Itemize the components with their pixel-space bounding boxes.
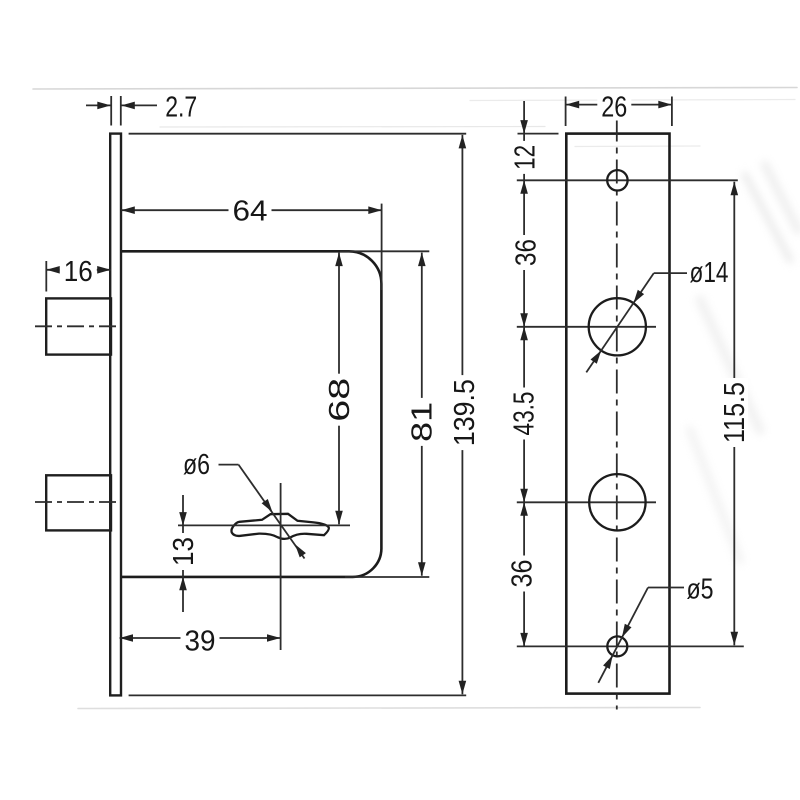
dimension text 43.5 <box>511 388 538 440</box>
dimension 16 line and arrows <box>46 269 110 271</box>
faceplate edge (thin vertical plate, side view) <box>110 134 121 696</box>
svg-text:26: 26 <box>601 92 627 124</box>
upper large hole diameter 14 <box>589 298 646 355</box>
spindle follower / Oe6 cam shape <box>231 514 328 539</box>
dimension text 139.5 <box>451 375 478 450</box>
svg-text:ø5: ø5 <box>687 574 714 606</box>
dimension text 26 <box>597 92 631 121</box>
leader line for diameter 6 <box>219 464 239 466</box>
leader line for diameter 5 <box>648 587 684 589</box>
svg-text:139.5: 139.5 <box>449 379 481 446</box>
centerline horizontal through follower <box>178 524 350 526</box>
faceplate front view rectangle <box>566 134 669 694</box>
dimension text 13 <box>170 533 197 570</box>
dimension 64 extension line right <box>381 204 383 290</box>
dimension 13 line and arrows <box>182 495 184 612</box>
extension of faceplate top edge left <box>518 133 559 135</box>
dimension text 36 upper <box>513 235 540 270</box>
svg-text:64: 64 <box>233 196 268 228</box>
extension of body bottom edge <box>345 576 429 578</box>
dimension 2.7 line and arrows <box>86 104 111 106</box>
hole center extension line (Oe14) <box>517 326 656 328</box>
dimension text 16 <box>60 256 97 285</box>
top screw hole <box>607 170 627 190</box>
dimension text 36 lower <box>509 556 536 592</box>
chain dimension line 12/36/43.5/36 <box>523 101 525 646</box>
lower large hole <box>589 474 645 530</box>
svg-text:16: 16 <box>64 256 93 288</box>
centerline deadbolt <box>35 501 119 503</box>
vertical centerline of faceplate <box>616 118 618 710</box>
dimension text 39 <box>181 626 220 655</box>
dimension text 64 <box>229 196 272 225</box>
dimension 81 line and arrows <box>421 253 423 576</box>
dimension 26 line and arrows <box>566 104 672 106</box>
svg-text:ø6: ø6 <box>183 449 210 481</box>
deadbolt (bottom bolt, side view) <box>46 475 111 530</box>
dimension text 68 <box>326 374 353 426</box>
hole center extension line top (Oe5) <box>517 179 738 181</box>
dimension 39 line and arrows <box>120 637 281 639</box>
dimension 115.5 line and arrows <box>733 182 735 646</box>
centerline vertical through follower <box>280 483 282 650</box>
dimension text 81 <box>408 398 435 446</box>
svg-text:12: 12 <box>509 145 541 170</box>
extension line bottom (faceplate bottom) <box>129 694 467 696</box>
dimension 2.7 extension lines <box>110 96 112 126</box>
svg-text:115.5: 115.5 <box>719 382 751 443</box>
svg-text:81: 81 <box>406 402 438 442</box>
dimension 16 extension line <box>45 261 47 292</box>
svg-text:39: 39 <box>185 626 216 658</box>
dimension 26 extension lines <box>565 97 567 127</box>
dimension 139.5 line and arrows <box>461 135 463 694</box>
latch bolt (top bolt, side view) <box>46 298 111 354</box>
svg-text:68: 68 <box>324 378 356 422</box>
dimension text 115.5 <box>721 378 748 447</box>
dimension text 12 <box>511 141 538 174</box>
extension of body top edge <box>340 250 429 252</box>
dimension text 2.7 <box>161 92 201 121</box>
svg-text:36: 36 <box>511 239 543 266</box>
dimension 68 line and arrows <box>338 253 340 525</box>
lock body outline (side view) <box>121 251 381 577</box>
svg-text:2.7: 2.7 <box>165 92 197 124</box>
svg-text:36: 36 <box>507 560 539 588</box>
svg-text:43.5: 43.5 <box>509 392 541 436</box>
hole center extension line bottom (Oe5) <box>517 645 744 647</box>
leader line for diameter 14 <box>654 272 687 274</box>
svg-text:ø14: ø14 <box>690 257 729 289</box>
dimension 64 line and arrows <box>121 209 382 211</box>
scan artifact lines <box>33 88 798 709</box>
svg-text:13: 13 <box>168 537 200 566</box>
extension line top (faceplate top) <box>129 133 467 135</box>
hole center extension line (lower big hole) <box>517 501 656 503</box>
centerline latch bolt <box>35 325 119 327</box>
bottom screw hole diameter 5 <box>607 636 627 656</box>
